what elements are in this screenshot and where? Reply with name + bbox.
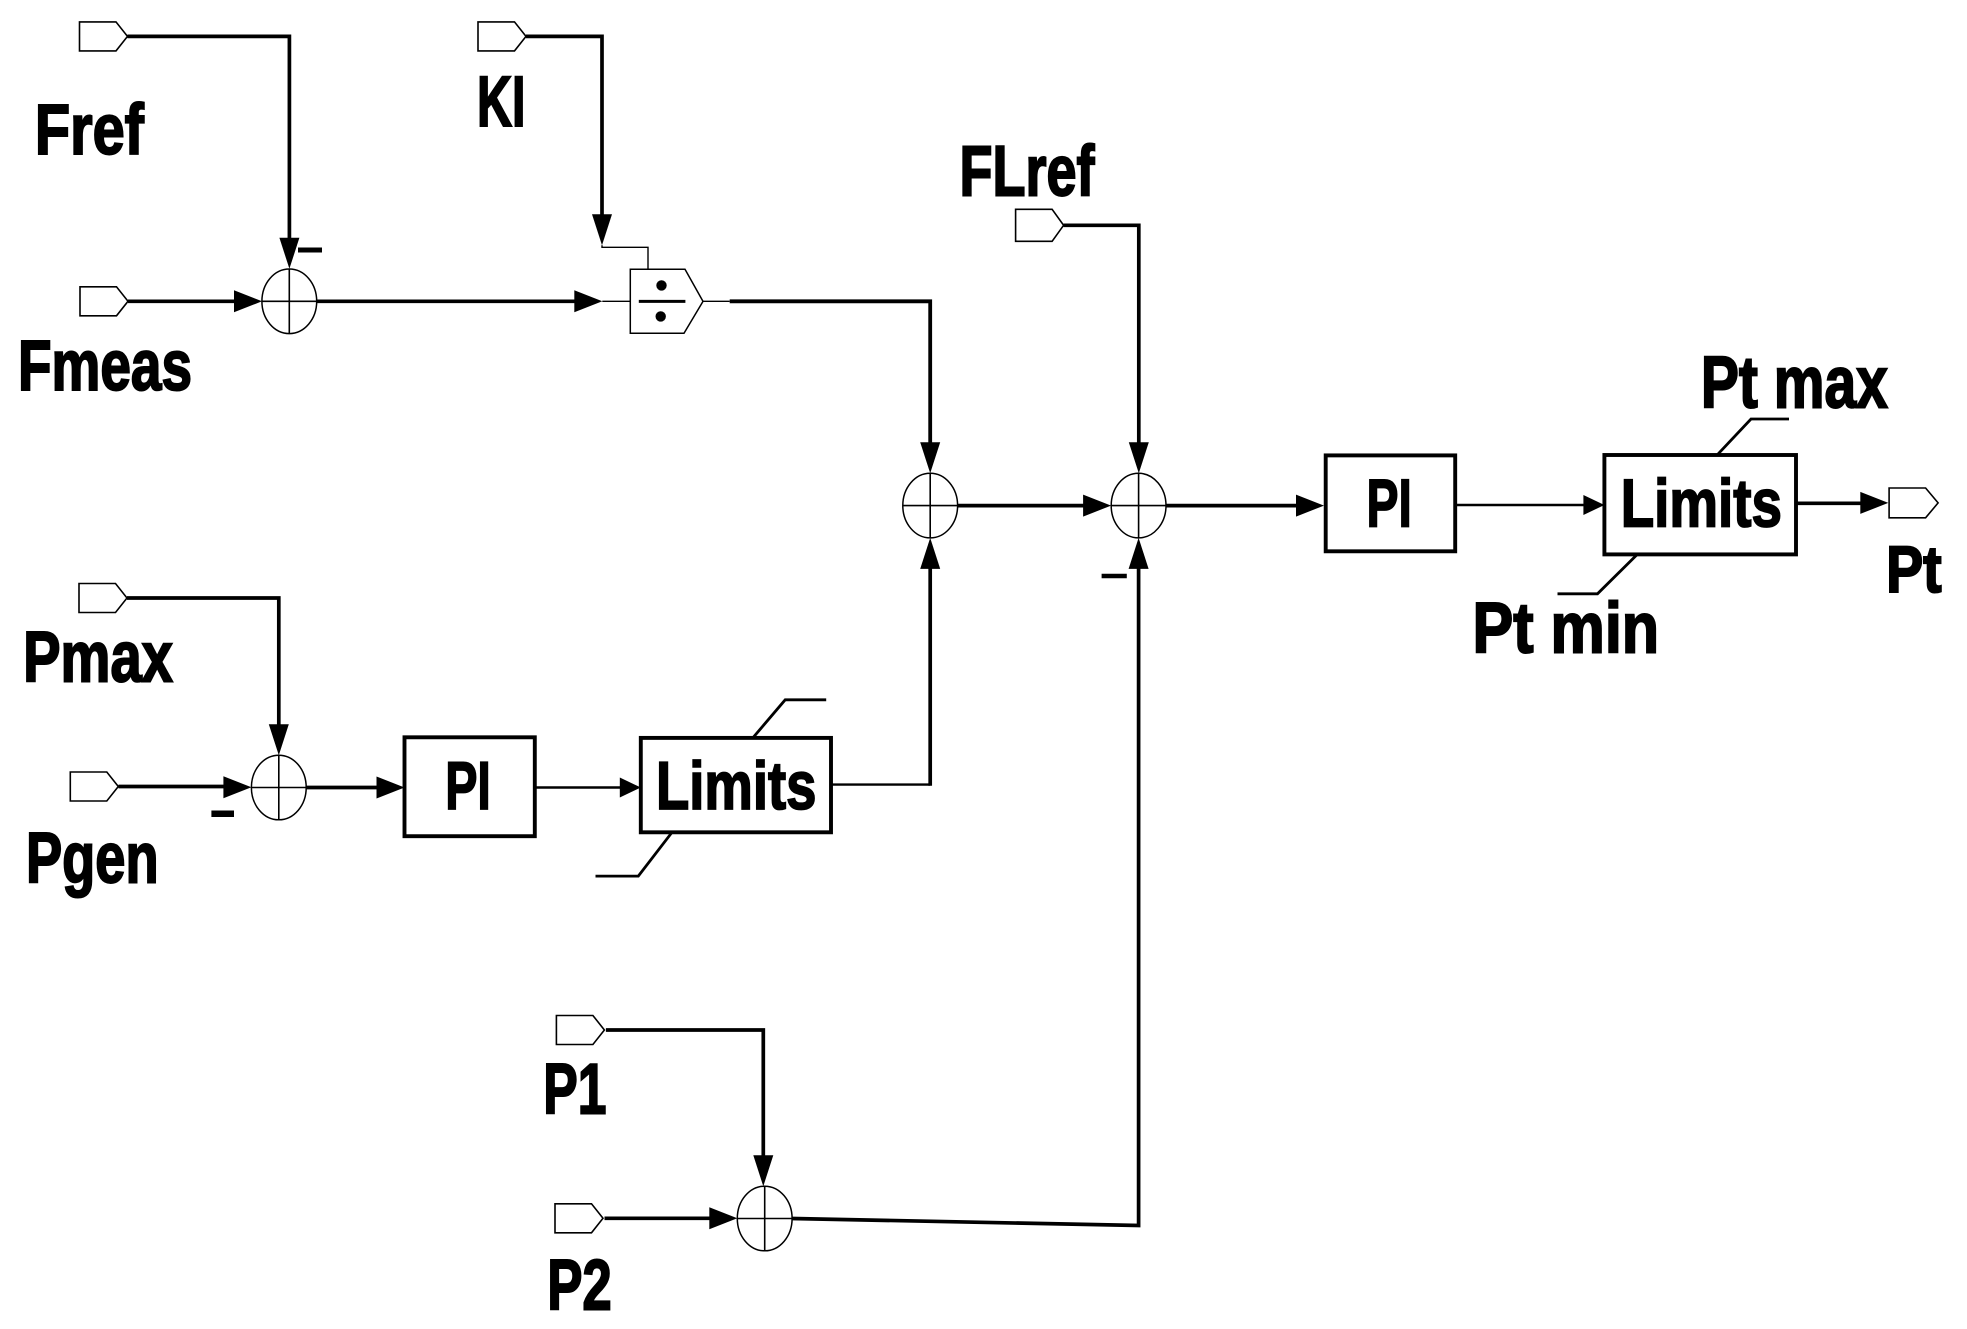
svg-text:Fmeas: Fmeas <box>18 327 192 406</box>
leader line Pt max <box>1717 419 1789 455</box>
divider block U1 <box>630 269 703 333</box>
summing junction S2 <box>903 473 958 538</box>
PI controller U2 <box>1326 455 1456 551</box>
wire Pgen to summer S4 <box>119 776 252 798</box>
wire Fref to summer S1 <box>128 36 300 268</box>
wire U5 to summer S2 <box>831 538 940 786</box>
wire KI to divider <box>526 36 648 269</box>
wire S5 to summer S3 <box>792 538 1149 1226</box>
minus sign at S3 <box>1102 574 1127 579</box>
input port FLref <box>1016 209 1064 241</box>
svg-text:P1: P1 <box>543 1050 606 1129</box>
input port Pgen <box>70 772 118 801</box>
input port Fref <box>80 22 128 51</box>
svg-text:Limits: Limits <box>656 748 817 824</box>
svg-text:P2: P2 <box>547 1247 612 1326</box>
saturation mark lower U5 <box>596 832 673 876</box>
svg-text:FLref: FLref <box>960 133 1095 212</box>
svg-text:Fref: Fref <box>35 91 144 170</box>
wire U3 to output port Pt <box>1796 492 1888 514</box>
wire S4 to PI controller U4 <box>306 777 404 799</box>
wire U4 to limiter U5 <box>535 778 641 798</box>
wire P1 to summer S5 <box>606 1030 773 1186</box>
svg-text:Pmax: Pmax <box>23 618 173 697</box>
svg-text:PI: PI <box>445 748 491 824</box>
input port Fmeas <box>80 287 128 316</box>
saturation mark upper U5 <box>753 700 826 738</box>
wire P2 to summer S5 <box>605 1207 738 1229</box>
wire S3 to PI controller U2 <box>1166 495 1324 517</box>
leader line Pt min <box>1558 554 1638 593</box>
summing junction S4 <box>251 755 306 820</box>
limiter block U5 <box>641 738 831 832</box>
input port KI <box>478 22 526 51</box>
svg-text:Pt min: Pt min <box>1473 589 1660 668</box>
svg-text:PI: PI <box>1367 466 1412 542</box>
input port Pmax <box>79 584 127 613</box>
PI controller U4 <box>405 737 535 836</box>
summing junction S3 <box>1111 473 1166 538</box>
wire U2 to limiter U3 <box>1455 495 1604 515</box>
svg-text:Pt max: Pt max <box>1701 342 1888 423</box>
wire FLref to summer S3 <box>1064 225 1149 473</box>
wire Pmax to summer S4 <box>127 598 289 755</box>
input port P1 <box>556 1016 604 1045</box>
wire S1 to divider <box>317 290 631 312</box>
input port P2 <box>555 1204 603 1233</box>
svg-text:Pt: Pt <box>1886 532 1942 606</box>
svg-text:KI: KI <box>477 63 526 142</box>
output port Pt <box>1889 488 1938 518</box>
wire S2 to summer S3 <box>958 495 1112 517</box>
wire Fmeas to summer S1 <box>128 290 262 312</box>
wire divider to summer S2 <box>703 301 940 473</box>
minus sign at S4 <box>211 811 234 818</box>
limiter block U3 <box>1604 455 1796 554</box>
svg-text:Limits: Limits <box>1621 466 1782 542</box>
summing junction S1 <box>262 269 317 334</box>
minus sign at S1 <box>298 248 322 253</box>
summing junction S5 <box>737 1186 792 1251</box>
svg-text:Pgen: Pgen <box>26 820 159 899</box>
